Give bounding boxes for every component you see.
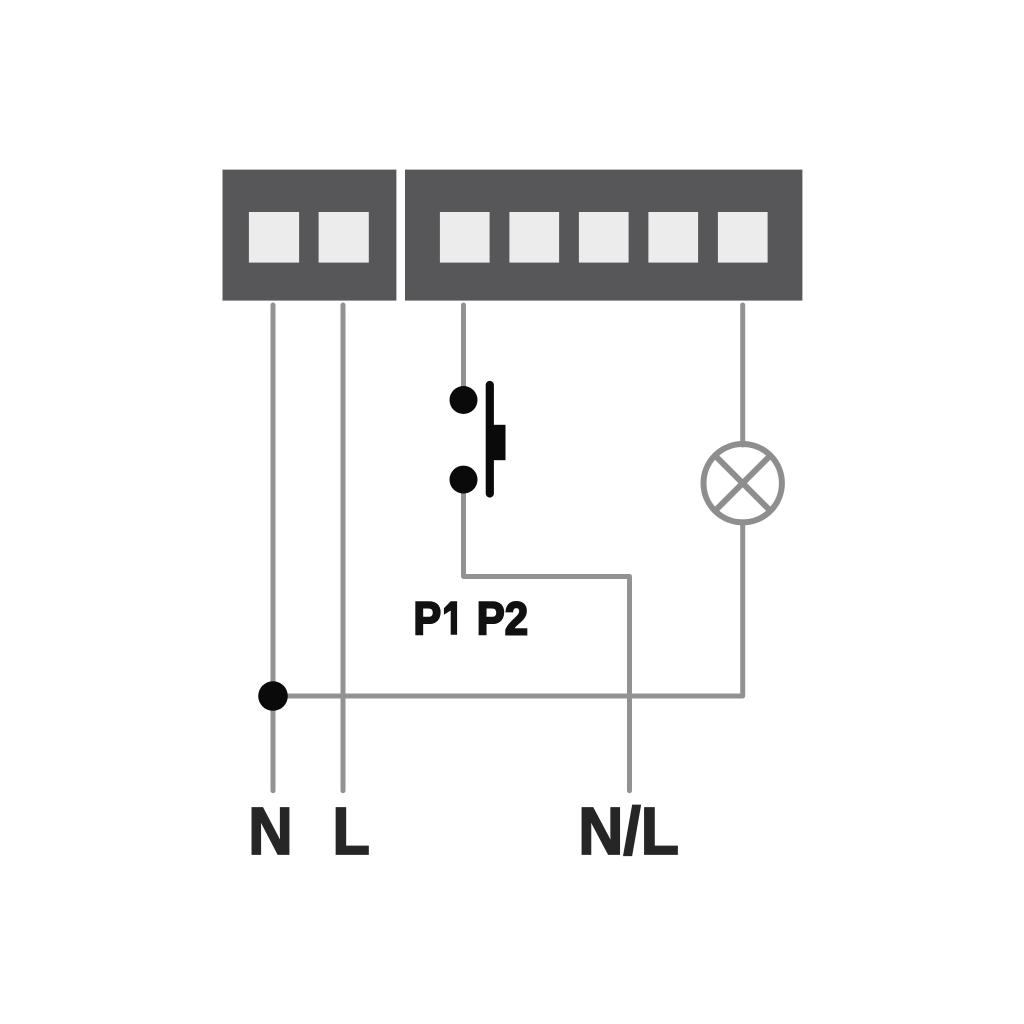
push-button contact dot top — [450, 386, 478, 414]
svg-text:N/L: N/L — [578, 794, 679, 868]
wire from push-button bottom to N/L — [464, 480, 630, 791]
wire lamp bottom to junction — [273, 521, 743, 696]
wire to push-button top — [461, 305, 466, 400]
terminal block right (5-pole) — [405, 170, 802, 301]
push-button actuator bar — [486, 385, 494, 494]
terminal right slot 1 — [440, 212, 490, 263]
svg-text:P2: P2 — [477, 594, 528, 645]
label N/L — [578, 794, 679, 868]
terminal left slot 2 (L) — [319, 212, 369, 263]
svg-text:P: P — [414, 593, 442, 645]
push-button plunger knob — [490, 425, 506, 460]
terminal block left (N, L) — [223, 170, 397, 301]
lamp cross diagonal 2 — [715, 456, 770, 511]
lamp cross diagonal 1 — [715, 456, 770, 511]
svg-text:L: L — [332, 794, 370, 869]
wire N vertical — [271, 305, 276, 791]
label P1 — [414, 593, 442, 645]
lamp circle — [704, 444, 782, 522]
wire L vertical — [341, 305, 346, 791]
terminal right slot 4 — [648, 212, 698, 263]
svg-text:N: N — [248, 794, 293, 869]
terminal right slot 5 — [718, 212, 768, 263]
terminal right slot 3 — [579, 212, 629, 263]
terminal right slot 2 — [509, 212, 559, 263]
label N — [248, 794, 293, 869]
terminal left slot 1 (N) — [249, 212, 299, 263]
label L — [332, 794, 370, 869]
push-button contact dot bottom — [450, 466, 478, 494]
wire terminal 5 to lamp — [740, 305, 745, 445]
junction node dot — [258, 681, 288, 711]
label P2 — [477, 594, 528, 645]
